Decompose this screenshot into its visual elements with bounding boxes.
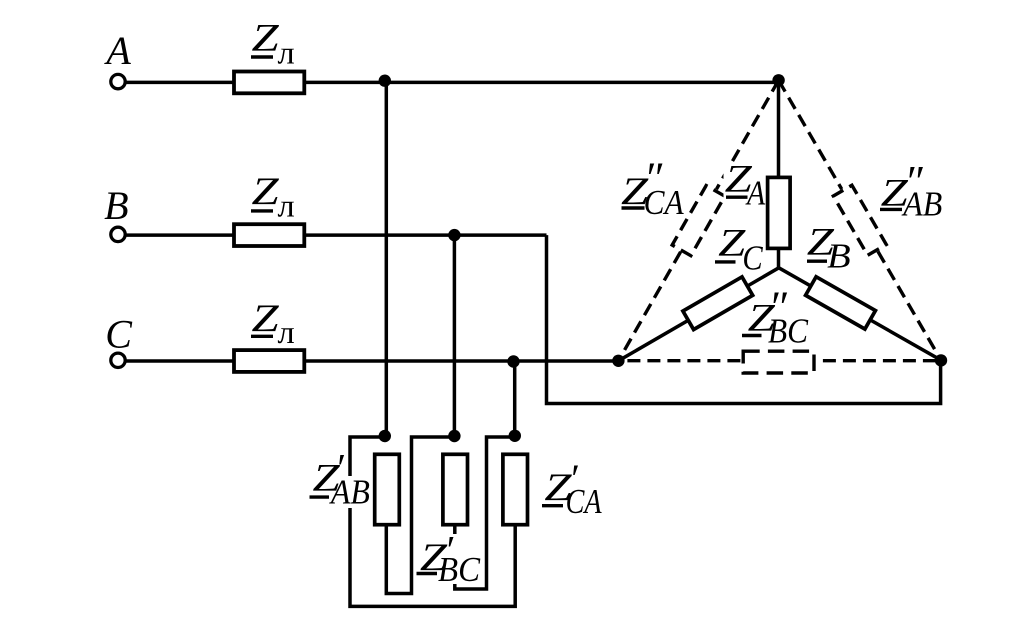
- wire star arm center to bottom-right node: [779, 268, 941, 360]
- label ZC: [715, 221, 764, 278]
- wire C ZлC to bottom-left triangle node: [304, 359, 618, 363]
- wire A terminal to ZлA: [126, 81, 235, 85]
- resistor ZB rotated: [806, 277, 876, 329]
- svg-text:Z: Z: [252, 297, 280, 340]
- svg-text:л: л: [278, 189, 295, 225]
- wire vertical from C junction down to delta node C: [513, 361, 517, 437]
- wire vertical from B junction down to delta node B: [453, 235, 457, 437]
- wire delta bracket Z'AB bottom to node B: [386, 437, 454, 594]
- wire C terminal to ZлC: [126, 359, 235, 363]
- label ZA: [725, 157, 766, 213]
- bottom-right triangle node dot: [935, 354, 947, 366]
- wire A ZлA to apex: [304, 81, 779, 85]
- label ZB: [807, 220, 851, 275]
- svg-text:A: A: [745, 174, 765, 213]
- svg-text:C: C: [742, 239, 763, 277]
- delta node B dot: [448, 430, 460, 442]
- white mask behind label ZA: [724, 166, 765, 208]
- resistor Z''BC dashed box: [743, 351, 814, 373]
- dashed triangle bottom edge (Z''BC branch): [618, 359, 741, 362]
- wire star lead ZA to center: [777, 248, 781, 267]
- dashed triangle edge apex to bottom-right (Z''AB branch): [779, 80, 842, 189]
- svg-text:CA: CA: [566, 483, 603, 521]
- dashed triangle edge apex to bottom-left (Z''CA branch): [716, 80, 778, 189]
- label Z''CA: [621, 153, 684, 222]
- wire B terminal to ZлB: [126, 233, 235, 237]
- label Z'AB: [310, 445, 370, 511]
- svg-text:BC: BC: [768, 313, 809, 351]
- label Z'BC: [417, 527, 481, 589]
- bottom-left triangle node dot: [612, 355, 624, 367]
- svg-text:CA: CA: [644, 184, 685, 222]
- wire vertical from A junction down to delta node A: [385, 82, 389, 437]
- white mask behind label Z'AB: [327, 476, 370, 508]
- resistor Z'BC: [443, 454, 468, 524]
- svg-text:л: л: [278, 36, 295, 72]
- terminal B: [111, 227, 125, 241]
- svg-text:C: C: [105, 312, 133, 357]
- wire star lead apex to ZA: [777, 82, 781, 177]
- terminal A: [111, 74, 125, 88]
- svg-text:BC: BC: [438, 551, 481, 589]
- svg-text:Z: Z: [252, 170, 280, 213]
- delta node A dot: [379, 430, 391, 442]
- junction dot on line C: [507, 355, 519, 367]
- svg-text:AB: AB: [329, 474, 370, 512]
- resistor Z'AB: [375, 454, 400, 524]
- label Z'CA: [542, 456, 602, 521]
- resistor Z'CA: [503, 454, 528, 524]
- wire B corner down, right, up to right triangle node: [547, 235, 941, 403]
- white mask behind label Z'BC: [416, 534, 483, 584]
- label Z''AB: [880, 157, 942, 224]
- apex node dot: [772, 74, 784, 86]
- resistor ZC rotated: [683, 277, 753, 330]
- svg-text:Z: Z: [252, 16, 280, 59]
- svg-text:A: A: [103, 28, 131, 73]
- svg-text:B: B: [827, 236, 851, 275]
- wire delta bracket Z'BC bottom to node C: [455, 437, 515, 589]
- wire delta bracket node A to Z'CA bottom: [350, 437, 515, 606]
- svg-text:AB: AB: [901, 186, 942, 224]
- resistor Z''CA dashed box: [672, 186, 725, 256]
- resistor ZA: [768, 177, 791, 248]
- delta node C dot: [509, 430, 521, 442]
- junction dot on line A: [379, 75, 391, 87]
- label Zл phase B: [251, 170, 295, 224]
- svg-text:л: л: [278, 315, 295, 351]
- wire B ZлB to corner: [304, 233, 547, 237]
- wire star arm center to bottom-left node: [618, 268, 778, 361]
- junction dot on line B: [448, 229, 460, 241]
- resistor Z''AB dashed box: [833, 185, 886, 255]
- resistor Zл phase B: [234, 224, 304, 246]
- resistor Zл phase A: [234, 72, 304, 94]
- svg-text:B: B: [104, 183, 128, 228]
- terminal C: [111, 353, 125, 367]
- label Z''BC: [742, 283, 809, 351]
- label Zл phase A: [251, 16, 295, 71]
- resistor Zл phase C: [234, 350, 304, 372]
- label Zл phase C: [251, 297, 295, 351]
